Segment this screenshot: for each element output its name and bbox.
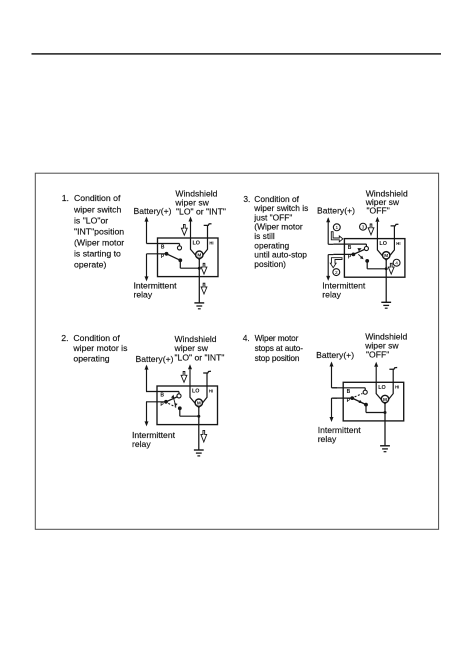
switch motion arrows (3) xyxy=(357,247,362,252)
ground symbol (4) xyxy=(380,445,390,447)
svg-text:Battery(+): Battery(+) xyxy=(136,354,174,364)
current arrow LO (2) xyxy=(181,372,187,383)
outer frame of figure xyxy=(35,173,438,529)
svg-text:4: 4 xyxy=(395,261,398,267)
current arrow below box to ground (2) xyxy=(201,430,207,442)
junction dot motor return (3) xyxy=(385,267,388,270)
wire LO to wiper switch (4) xyxy=(375,367,377,383)
current arrow motor to ground inside box (1) xyxy=(201,263,207,274)
svg-text:B: B xyxy=(347,389,351,395)
wire P terminal (4) xyxy=(332,397,352,399)
svg-text:stop position: stop position xyxy=(255,353,300,363)
wire to intermittent relay (4) xyxy=(331,398,333,418)
junction dot motor return (1) xyxy=(198,267,201,270)
svg-text:"LO" or "INT": "LO" or "INT" xyxy=(175,353,225,363)
contact circle (B side) (3) xyxy=(364,246,368,250)
wire to intermittent relay (2) xyxy=(146,402,148,423)
switch motion double arrow (2) xyxy=(173,397,175,404)
svg-text:wiper switch: wiper switch xyxy=(73,204,121,214)
wire P terminal (2) xyxy=(146,401,166,403)
svg-text:M: M xyxy=(383,397,387,402)
wire motor to ground (2) xyxy=(198,407,200,450)
contact dot (park side) (4) xyxy=(364,403,368,407)
wire motor to ground (4) xyxy=(384,404,386,446)
open terminal HI (4) xyxy=(392,369,394,382)
wire LO to wiper switch (3) xyxy=(376,222,378,239)
auto-stop switch arm (run position) (3) xyxy=(353,249,365,254)
contact dot (park side) (1) xyxy=(178,258,182,262)
wire LO to wiper switch (1) xyxy=(190,222,192,239)
wire park contact to motor return (1) xyxy=(179,260,181,268)
svg-text:"OFF": "OFF" xyxy=(367,206,390,216)
svg-text:Battery(+): Battery(+) xyxy=(134,206,172,216)
wiper motor M funnel (3) xyxy=(343,238,345,240)
svg-text:HI: HI xyxy=(209,388,213,393)
wiper motor M circle (3) xyxy=(383,252,390,259)
bent current arrow 2 (3) xyxy=(330,258,342,268)
current arrow motor to ground inside box (3) xyxy=(388,263,394,274)
contact circle (B side) (4) xyxy=(363,390,367,394)
bent current arrow 1 (3) xyxy=(331,232,343,242)
wire park contact to motor return (4) xyxy=(365,405,367,413)
wiper motor M funnel (1) xyxy=(157,237,159,239)
junction dot P (1) xyxy=(165,252,169,256)
svg-text:M: M xyxy=(197,253,201,258)
switch motion arrow (4) xyxy=(359,400,364,405)
junction dot P (4) xyxy=(350,396,354,400)
wire battery feed (4) xyxy=(331,363,333,388)
ground symbol (1) xyxy=(194,302,204,304)
svg-text:HI: HI xyxy=(395,385,399,390)
svg-text:HI: HI xyxy=(209,240,213,245)
svg-text:Wiper motor: Wiper motor xyxy=(255,333,299,343)
circled 1 xyxy=(333,224,340,231)
svg-text:4.: 4. xyxy=(243,333,250,343)
top horizontal rule xyxy=(32,53,442,55)
wire motor to ground (1) xyxy=(198,259,200,303)
contact circle (B side) (2) xyxy=(177,394,181,398)
svg-text:relay: relay xyxy=(132,439,151,449)
svg-text:3: 3 xyxy=(362,225,365,231)
svg-text:Battery(+): Battery(+) xyxy=(317,206,355,216)
contact circle (B side) (1) xyxy=(177,246,181,250)
current arrow below box to ground (1) xyxy=(201,283,207,294)
junction dot motor return (4) xyxy=(384,411,387,414)
ground symbol (3) xyxy=(381,301,391,303)
wiper motor M circle (1) xyxy=(196,251,203,258)
svg-text:Condition of: Condition of xyxy=(74,193,121,203)
junction dot P (3) xyxy=(352,253,356,257)
junction dot motor return (2) xyxy=(197,415,200,418)
circled 3 xyxy=(360,223,367,230)
auto-stop switch arm (park position) (1) xyxy=(167,254,181,260)
svg-text:relay: relay xyxy=(134,289,153,299)
svg-text:"INT"position: "INT"position xyxy=(74,226,124,236)
svg-text:LO: LO xyxy=(193,241,201,247)
svg-text:operating: operating xyxy=(73,353,109,363)
switch arm previous position dashes (4) xyxy=(355,394,363,397)
svg-text:"LO" or "INT": "LO" or "INT" xyxy=(176,207,226,217)
wire B terminal (1) xyxy=(147,243,180,245)
svg-text:operate): operate) xyxy=(74,260,106,270)
auto-stop switch arm (park position) (4) xyxy=(352,398,366,405)
svg-text:1: 1 xyxy=(335,225,338,231)
wire B terminal (2) xyxy=(146,391,179,393)
svg-text:B: B xyxy=(160,393,164,399)
svg-text:LO: LO xyxy=(192,389,200,395)
svg-text:LO: LO xyxy=(379,241,387,247)
open terminal HI (2) xyxy=(206,373,208,386)
open terminal HI (3) xyxy=(393,226,395,239)
wire park contact to motor return (2) xyxy=(179,408,181,416)
wire P terminal (3) xyxy=(333,253,353,255)
wire to intermittent relay (1) xyxy=(146,254,148,278)
contact dot (park side) (3) xyxy=(365,259,369,263)
svg-text:relay: relay xyxy=(318,434,337,444)
svg-text:1.: 1. xyxy=(62,193,69,203)
svg-text:M: M xyxy=(197,401,201,406)
relay/motor box outline (2) xyxy=(157,386,218,425)
wire motor to ground (3) xyxy=(385,260,387,302)
contact dot (park side) (2) xyxy=(178,406,182,410)
svg-text:Condition of: Condition of xyxy=(73,333,120,343)
wire battery feed (2) xyxy=(146,366,148,392)
svg-text:"OFF": "OFF" xyxy=(366,350,389,360)
wire battery feed (3) xyxy=(327,218,329,244)
svg-text:wiper sw: wiper sw xyxy=(174,343,209,353)
open terminal HI (1) xyxy=(207,225,209,238)
current arrow into LO (3) xyxy=(368,224,374,235)
svg-text:2: 2 xyxy=(335,270,338,276)
circled 4 xyxy=(393,259,400,266)
svg-text:Battery(+): Battery(+) xyxy=(316,350,354,360)
svg-text:is "LO"or: is "LO"or xyxy=(74,215,108,225)
relay/motor box outline (3) xyxy=(344,239,405,278)
svg-text:B: B xyxy=(161,245,165,251)
svg-text:stops at auto-: stops at auto- xyxy=(255,343,304,353)
wiper motor M funnel (4) xyxy=(342,381,344,383)
current arrow into LO (1) xyxy=(181,224,187,235)
wire to intermittent relay (3) xyxy=(327,255,329,278)
svg-text:is starting to: is starting to xyxy=(74,249,121,259)
ground symbol (2) xyxy=(194,449,204,451)
wiper motor M funnel (2) xyxy=(156,385,158,387)
svg-text:M: M xyxy=(384,253,388,258)
wire battery feed (1) xyxy=(146,218,148,244)
wire P terminal (1) xyxy=(147,253,167,255)
junction dot P (2) xyxy=(164,400,168,404)
svg-text:LO: LO xyxy=(378,385,386,391)
wire park contact to motor return (3) xyxy=(366,261,368,269)
circled 2 xyxy=(333,269,340,276)
svg-text:B: B xyxy=(348,245,352,251)
wiper motor M circle (4) xyxy=(381,395,388,402)
svg-text:position): position) xyxy=(254,259,286,269)
switch arm previous position dashes (2) xyxy=(168,403,176,407)
wiper motor M circle (2) xyxy=(195,399,202,406)
svg-text:wiper motor is: wiper motor is xyxy=(72,343,128,353)
wire B terminal (3) xyxy=(333,243,366,245)
auto-stop switch arm (run position) (2) xyxy=(166,397,178,402)
svg-text:HI: HI xyxy=(396,241,400,246)
relay/motor box outline (4) xyxy=(343,382,404,421)
svg-text:relay: relay xyxy=(322,290,341,300)
svg-text:3.: 3. xyxy=(243,194,250,204)
svg-text:(Wiper motor: (Wiper motor xyxy=(74,237,124,247)
svg-text:2.: 2. xyxy=(61,333,68,343)
wire B terminal (4) xyxy=(332,387,365,389)
wire LO to wiper switch (2) xyxy=(189,369,191,386)
relay/motor box outline (1) xyxy=(158,238,219,277)
